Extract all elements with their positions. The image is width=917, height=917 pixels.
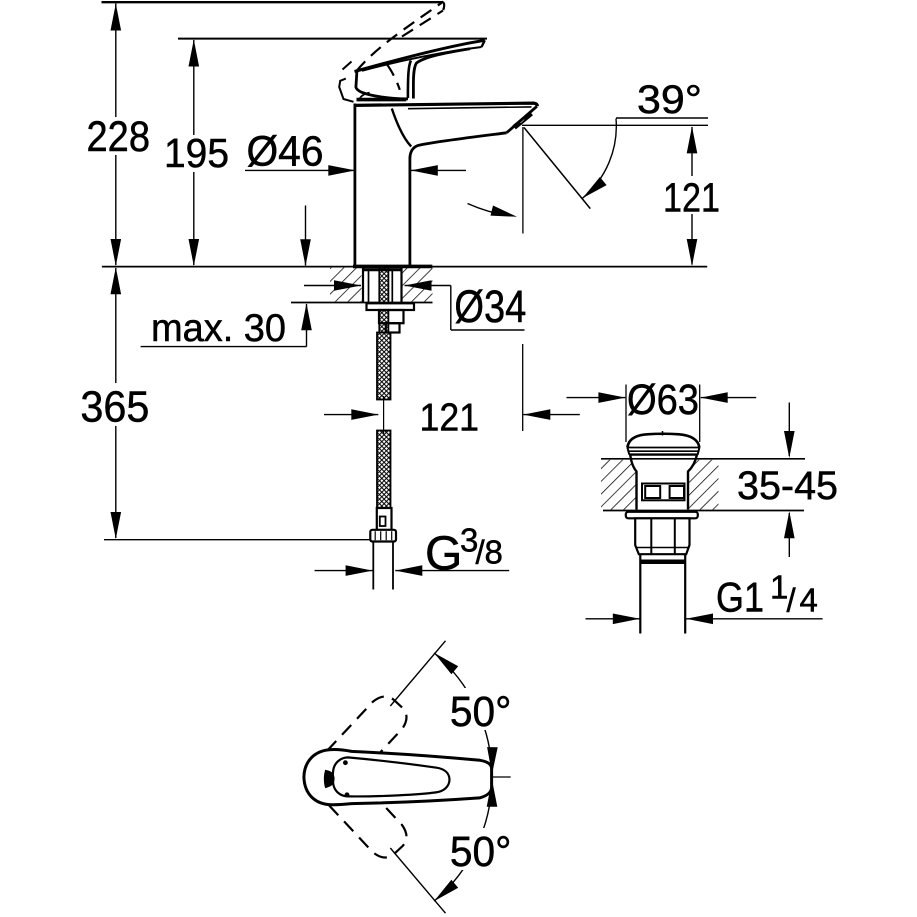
dimension max.30 lower arrow <box>306 304 308 347</box>
stream direction line <box>524 128 590 209</box>
dimension 121 spout height vertical line <box>691 127 693 176</box>
svg-text:121: 121 <box>663 175 720 221</box>
deck cross-section hatch right <box>403 268 433 302</box>
dimension line Ø63 <box>567 397 626 399</box>
svg-text:121: 121 <box>420 397 480 440</box>
lever tip <box>482 40 485 47</box>
mounting nut lower <box>386 323 400 332</box>
raised lever dashed base dash <box>343 62 352 70</box>
handle dome base <box>356 72 408 99</box>
supply hose braid lower <box>377 431 391 509</box>
svg-text:365: 365 <box>80 383 149 432</box>
svg-text:max. 30: max. 30 <box>151 307 286 350</box>
spout top inner line <box>408 107 532 109</box>
mounting shank left wall <box>362 267 364 302</box>
dimension 35-45 lower arrow <box>788 513 790 557</box>
svg-text:35-45: 35-45 <box>737 464 838 508</box>
dimension Ø63 extension lines <box>625 385 627 443</box>
svg-text:228: 228 <box>87 113 151 161</box>
shank top band <box>363 268 402 271</box>
sink deck hatch right <box>689 460 719 510</box>
faucet body left edge <box>353 104 356 266</box>
cartridge cover piece <box>339 79 353 102</box>
handle dot upper <box>343 760 348 765</box>
svg-text:G: G <box>425 528 462 581</box>
spout top edge <box>354 103 538 106</box>
dimension line Ø34 <box>304 285 361 287</box>
hose end fitting <box>377 508 392 530</box>
sink deck line bottom (drain) <box>603 510 804 512</box>
drain body window <box>642 484 685 501</box>
dimension line 121 below deck <box>324 414 378 416</box>
raised lever dashed neck <box>387 65 400 90</box>
handle top view inner outline <box>333 757 450 796</box>
rotated axis line upper <box>390 641 445 706</box>
mounting shank right wall <box>400 267 402 302</box>
drain cap rim <box>628 450 699 452</box>
top view centerline <box>417 776 511 778</box>
handle indicator blob <box>324 770 335 788</box>
drain cap dome <box>627 434 699 448</box>
hose end reference line 365 bottom <box>104 539 374 541</box>
drain tailpipe <box>639 554 641 633</box>
G3/8 connector nut <box>370 530 396 542</box>
dashed rotated handle lower <box>327 776 406 858</box>
spout inner S-curve <box>392 109 411 147</box>
supply hose braid mid <box>377 333 391 400</box>
drain cap pin <box>662 431 664 436</box>
dimension 195 vertical line <box>193 40 195 135</box>
drain locknut <box>635 518 689 554</box>
svg-text:50°: 50° <box>450 688 512 736</box>
dimension line Ø46 <box>245 169 355 171</box>
dimension reference line 228 top <box>102 1 444 3</box>
mounting washer <box>367 303 415 310</box>
svg-text:/: / <box>787 582 797 619</box>
rotated axis line lower <box>390 848 445 913</box>
spout outlet axis extension below deck <box>522 344 524 431</box>
dimension line G3/8 <box>315 570 373 572</box>
aerator <box>514 113 531 127</box>
handle top view outline <box>304 750 492 805</box>
hinge arc <box>359 93 370 102</box>
svg-text:Ø34: Ø34 <box>454 281 526 332</box>
dimension 365 vertical line <box>115 268 117 383</box>
lever neck left <box>408 61 411 99</box>
drain flange <box>626 512 698 519</box>
svg-text:39°: 39° <box>637 78 702 122</box>
svg-text:195: 195 <box>164 130 229 176</box>
svg-text:8: 8 <box>485 534 503 571</box>
svg-text:50°: 50° <box>450 828 512 876</box>
handle joint line <box>357 98 407 102</box>
faucet base line on deck <box>353 265 432 269</box>
sink deck hatch left <box>601 460 637 510</box>
lever underside and neck right <box>413 49 470 99</box>
spout outlet axis line above deck <box>522 127 524 234</box>
lever top edge <box>355 40 485 71</box>
dimension max.30 leader underline <box>141 346 307 348</box>
svg-text:G1: G1 <box>716 574 764 621</box>
svg-text:Ø46: Ø46 <box>247 128 324 176</box>
sink deck line top (drain) <box>601 458 805 460</box>
spout underside curve <box>410 133 507 158</box>
spout outlet level extension line <box>522 124 708 126</box>
faucet body right edge <box>408 157 411 266</box>
dimension line G1 1/4 <box>586 618 640 620</box>
deck cross-section hatch left <box>330 268 362 302</box>
raised lever dashed tip <box>442 3 445 11</box>
swivel indication arc <box>468 204 512 216</box>
50 degree arc lower <box>434 780 492 901</box>
dimension 35-45 upper arrow <box>788 403 790 457</box>
dimension max.30 upper arrow <box>305 206 307 266</box>
dimension 228 vertical line <box>115 4 117 118</box>
39 degree arc <box>582 119 616 199</box>
dimension Ø34 leader <box>450 286 452 331</box>
countertop underside line <box>291 302 433 304</box>
lever inner edge <box>362 47 482 71</box>
dashed rotated handle upper <box>327 697 406 779</box>
countertop deck line <box>102 266 707 268</box>
G3/8 thread pipe <box>372 542 374 590</box>
drain body cone <box>630 455 636 510</box>
39 degree leader line <box>616 117 708 119</box>
mounting nut upper <box>379 310 404 323</box>
50 degree arc upper <box>434 653 492 774</box>
handle dot lower <box>345 792 350 797</box>
raised lever dashed inner edge <box>402 11 443 37</box>
spout end face <box>507 106 537 132</box>
supply hose braid upper narrow <box>379 267 388 333</box>
hose break centerline <box>383 396 385 434</box>
svg-text:4: 4 <box>800 582 818 619</box>
raised lever dashed top edge <box>357 2 444 72</box>
svg-text:Ø63: Ø63 <box>627 376 699 424</box>
dimension reference line 195 top <box>178 38 487 40</box>
